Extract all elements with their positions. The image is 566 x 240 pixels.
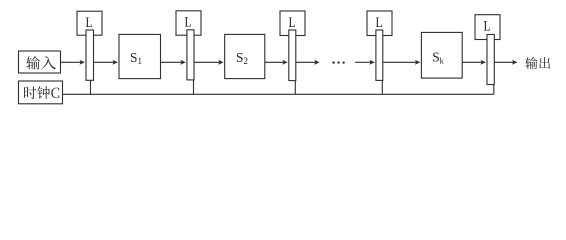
- svg-text:L: L: [85, 14, 92, 30]
- svg-text:L: L: [375, 14, 382, 30]
- svg-text:L: L: [184, 13, 191, 29]
- svg-text:L: L: [483, 18, 490, 34]
- svg-text:L: L: [288, 14, 295, 30]
